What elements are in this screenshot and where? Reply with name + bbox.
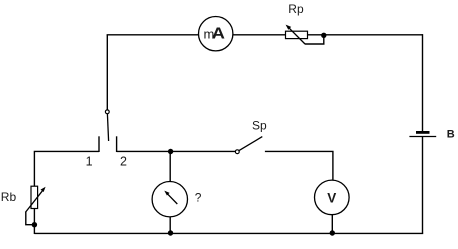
wire: Rb bottom to bottom rail — [33, 209, 35, 235]
wire: unknown meter down to bottom rail — [169, 217, 171, 234]
svg-text:Rp: Rp — [288, 2, 304, 16]
Rb tap wire to junction — [26, 212, 33, 225]
svg-text:?: ? — [195, 191, 202, 205]
svg-text:B: B — [447, 128, 455, 140]
svg-text:2: 2 — [120, 154, 127, 168]
svg-text:V: V — [327, 190, 336, 205]
junction dot Rb tap — [32, 222, 37, 227]
selector contact 2 stub — [116, 136, 118, 152]
wire: Sp to V branch corner, down to voltmeter — [265, 151, 333, 180]
battery B: long thin plate — [409, 136, 436, 138]
wire: right column lower — [422, 137, 424, 234]
wire: junction down to unknown meter — [169, 152, 171, 182]
wire: middle rail from contact 2 to Sp — [117, 150, 236, 152]
wire: bottom rail — [34, 232, 423, 234]
resistor Rp (box) — [286, 31, 308, 38]
Rp wiper arrow (diagonal) — [288, 27, 305, 44]
selector switch pivot (open circle) — [105, 110, 109, 114]
voltmeter V — [315, 180, 350, 215]
svg-text:Rb: Rb — [1, 190, 17, 204]
selector contact 1 stub — [98, 136, 100, 152]
Rb wiper arrow (diagonal) — [25, 190, 43, 213]
junction dot bottom rail under V — [330, 230, 335, 235]
ammeter mA — [199, 17, 233, 51]
battery B: short thick plate — [416, 131, 430, 134]
switch Sp blade — [239, 137, 262, 151]
Rp tap wire down to junction — [305, 36, 324, 44]
wire: middle-left rail from contact 1 to Rb — [34, 151, 99, 186]
svg-text:1: 1 — [86, 154, 93, 168]
junction dot after Rp — [321, 33, 326, 38]
wire: Rp box right to top-right corner — [308, 34, 423, 36]
unknown meter ? — [152, 182, 187, 217]
wire: right column upper (to battery) — [422, 34, 424, 131]
junction dot above unknown meter — [168, 149, 173, 154]
selector switch blade — [107, 114, 108, 141]
svg-text:Sp: Sp — [252, 119, 267, 133]
svg-text:A: A — [212, 26, 225, 43]
wire: top-left vertical from switch pivot up to top rail — [106, 35, 108, 110]
wire: ammeter to Rp box — [233, 34, 286, 36]
resistor Rb (box) — [31, 186, 38, 208]
wire: top rail left segment to ammeter — [107, 34, 199, 36]
wire: voltmeter down to bottom rail — [331, 215, 333, 234]
junction dot bottom rail under ? — [168, 230, 173, 235]
switch Sp pivot (open circle) — [235, 150, 239, 154]
